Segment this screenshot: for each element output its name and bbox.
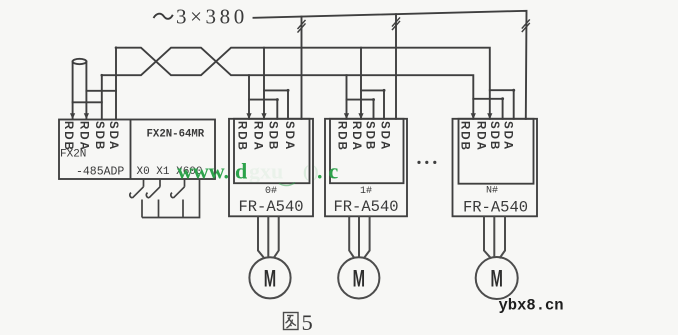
svg-text:SDA: SDA bbox=[502, 121, 514, 151]
svg-text:RDB: RDB bbox=[336, 121, 348, 152]
svg-text:FX2N-64MR: FX2N-64MR bbox=[147, 129, 205, 141]
svg-text:gxu: gxu bbox=[249, 159, 283, 184]
svg-text:M: M bbox=[491, 266, 503, 292]
svg-text:SDB: SDB bbox=[267, 121, 279, 151]
svg-text:RDB: RDB bbox=[236, 121, 248, 152]
svg-text:SDB: SDB bbox=[488, 121, 500, 151]
svg-text:SDA: SDA bbox=[107, 121, 119, 151]
svg-text:ybx8.cn: ybx8.cn bbox=[499, 297, 564, 315]
svg-text:RDA: RDA bbox=[78, 121, 90, 152]
svg-text:1#: 1# bbox=[360, 186, 372, 197]
svg-text:M: M bbox=[264, 266, 276, 292]
svg-text:FR-A540: FR-A540 bbox=[238, 198, 303, 216]
svg-text:FR-A540: FR-A540 bbox=[463, 199, 528, 217]
svg-text:www.: www. bbox=[177, 159, 229, 184]
svg-text:c: c bbox=[329, 159, 339, 184]
svg-text:SDB: SDB bbox=[364, 121, 376, 151]
svg-text:5: 5 bbox=[302, 310, 313, 335]
svg-text:SDA: SDA bbox=[283, 121, 295, 151]
svg-text:RDA: RDA bbox=[252, 121, 264, 152]
svg-text:0#: 0# bbox=[265, 186, 277, 197]
svg-text:d: d bbox=[235, 159, 247, 184]
svg-text:FR-A540: FR-A540 bbox=[333, 198, 398, 216]
svg-text:RDB: RDB bbox=[62, 121, 74, 152]
svg-text:M: M bbox=[353, 266, 365, 292]
svg-text:-485ADP: -485ADP bbox=[76, 166, 124, 179]
svg-text:FX2N: FX2N bbox=[60, 149, 86, 161]
svg-text:SDB: SDB bbox=[93, 121, 105, 151]
svg-text:.: . bbox=[317, 159, 323, 184]
svg-text:N#: N# bbox=[486, 186, 498, 197]
svg-text:3×380: 3×380 bbox=[176, 5, 248, 29]
svg-text:RDB: RDB bbox=[459, 121, 471, 152]
svg-text:RDA: RDA bbox=[350, 121, 362, 152]
svg-text:SDA: SDA bbox=[379, 121, 391, 151]
svg-text:RDA: RDA bbox=[475, 121, 487, 152]
